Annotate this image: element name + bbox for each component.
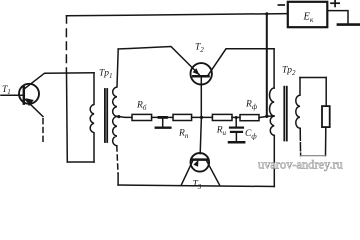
svg-text:T1: T1 xyxy=(2,85,11,96)
wire T1 base xyxy=(1,94,24,96)
wire Tp2 primary bottom to bottom rail xyxy=(273,135,275,186)
label minus xyxy=(278,4,284,6)
resistor load xyxy=(322,106,330,127)
wire output top xyxy=(300,77,326,79)
transformer Tp2 primary winding xyxy=(270,88,275,135)
svg-text:Rи: Rи xyxy=(216,126,227,138)
wire top-right corner down to Tp2 primary xyxy=(273,49,275,88)
node junction top rail / battery drop xyxy=(265,12,268,15)
resistor Rб xyxy=(132,114,152,120)
svg-text:Tp1: Tp1 xyxy=(99,69,113,81)
label plus xyxy=(331,0,339,6)
wire T3 emitter to bottom-left xyxy=(182,160,194,184)
svg-text:Cф: Cф xyxy=(245,129,257,141)
wire T1 emitter dashed continuation xyxy=(42,119,44,143)
wire left drop from top rail (broken/dashed in scan) xyxy=(66,16,68,23)
transistor T3 xyxy=(191,153,210,172)
wire T2 base lead xyxy=(200,77,202,117)
svg-text:Rф: Rф xyxy=(245,100,258,112)
wire middle branch seg3 xyxy=(192,116,213,118)
battery Eк box xyxy=(288,2,328,27)
transistor T2 xyxy=(191,63,212,84)
resistor Rи xyxy=(212,114,232,120)
node junction capacitor xyxy=(235,116,238,119)
wire battery drop to Tp2 centre tap xyxy=(267,115,274,117)
potentiometer tap (chassis tap symbol) xyxy=(156,117,171,127)
wire T3 base lead xyxy=(200,117,201,153)
transformer Tp1 core xyxy=(104,89,106,142)
wire Tp1 left loop (bottom) xyxy=(67,161,94,163)
resistor Rп xyxy=(173,114,192,120)
wire bottom rail xyxy=(118,185,274,187)
resistor Rф xyxy=(240,115,259,121)
wire battery minus drop xyxy=(266,14,268,116)
svg-text:Eк: Eк xyxy=(303,12,314,25)
wire Tp1 left loop (left side) xyxy=(66,73,69,162)
wire middle branch seg2 xyxy=(152,116,173,118)
wire load bottom xyxy=(325,127,327,156)
svg-text:Rб: Rб xyxy=(136,101,147,113)
wire centre tap of Tp1 to middle branch xyxy=(117,116,132,117)
wire output bottom xyxy=(301,155,326,157)
transistor T1 xyxy=(19,84,39,107)
transformer Tp1 left winding xyxy=(90,73,94,162)
svg-text:T2: T2 xyxy=(195,43,204,55)
wire T1 emitter xyxy=(26,100,44,117)
ground chassis bar xyxy=(338,23,360,26)
svg-text:uvarov-andrey.ru: uvarov-andrey.ru xyxy=(258,158,343,172)
capacitor Cф xyxy=(229,117,244,142)
wire load drop xyxy=(325,78,327,107)
svg-text:T3: T3 xyxy=(193,180,202,192)
transformer Tp2 core xyxy=(283,87,285,141)
wire T1 collector xyxy=(25,73,95,89)
svg-text:Rп: Rп xyxy=(178,129,189,141)
node junction centre tap xyxy=(117,115,120,118)
wire middle branch seg4 xyxy=(232,116,240,118)
wire T2 collector to top-right corner xyxy=(208,49,274,76)
svg-text:Tp2: Tp2 xyxy=(282,65,296,77)
node junction bases / middle branch xyxy=(200,116,203,119)
wire battery plus xyxy=(328,11,349,24)
wire top rail (battery minus bus) xyxy=(67,14,289,16)
transformer Tp2 secondary winding xyxy=(296,78,300,129)
wire T3 collector to bottom-right xyxy=(206,160,219,185)
transformer Tp1 right winding (base winding, bridge left side) xyxy=(113,49,119,146)
node junction battery drop / R filter xyxy=(265,115,268,118)
wire top-left corner to T2 emitter xyxy=(118,47,199,75)
wire secondary bottom (broken) xyxy=(299,128,301,151)
wire bridge left lower (dashed) xyxy=(117,146,118,173)
wire middle branch seg5 xyxy=(259,116,267,117)
